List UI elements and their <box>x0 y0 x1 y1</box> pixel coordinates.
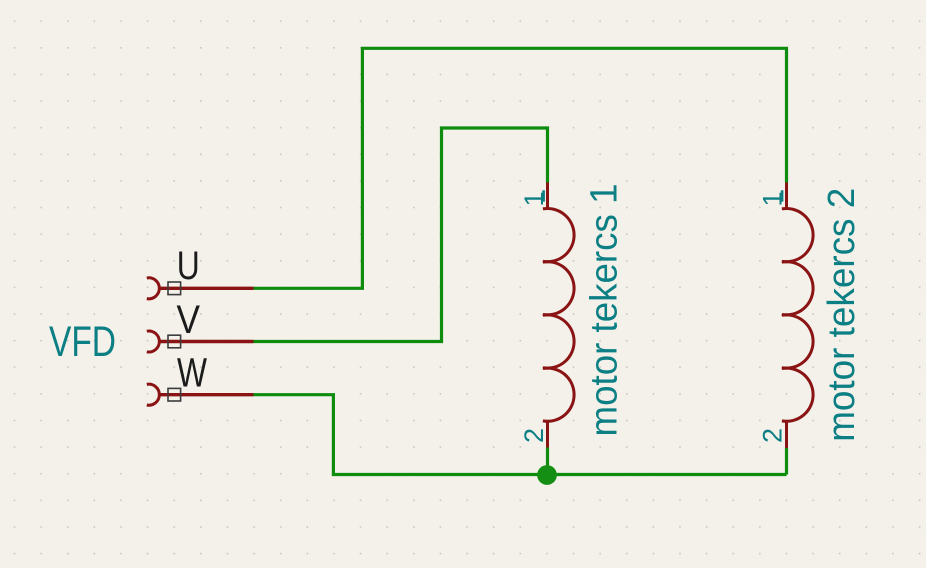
inductor L1 coil (motor tekercs 1) <box>543 183 574 448</box>
junction on bottom bus at L1 pin 2 <box>537 465 557 485</box>
svg-text:VFD: VFD <box>49 318 116 366</box>
pin U of VFD connector (socket arc, pin-end square, stub) <box>147 278 254 299</box>
svg-text:2: 2 <box>519 428 549 443</box>
svg-text:U: U <box>177 244 200 288</box>
svg-text:V: V <box>177 298 201 342</box>
inductor L2 coil (motor tekercs 2) <box>782 183 813 449</box>
svg-text:motor tekercs 2: motor tekercs 2 <box>821 188 863 442</box>
svg-text:W: W <box>177 350 207 396</box>
wire net V: stub to mid bus to L1 pin 1 <box>254 128 548 342</box>
wire L1 pin 2 to bottom bus <box>546 448 549 475</box>
pin V of VFD connector (socket arc, pin-end square, stub) <box>147 331 254 352</box>
wire net U: stub to top bus to L2 pin 1 <box>254 48 787 288</box>
wire L2 pin 2 to bottom bus <box>785 448 788 475</box>
svg-text:motor tekercs 1: motor tekercs 1 <box>584 184 626 437</box>
pin W of VFD connector (socket arc, pin-end square, stub) <box>147 384 254 405</box>
wire net W: stub down to bottom bus <box>254 395 787 475</box>
svg-text:2: 2 <box>758 428 788 443</box>
